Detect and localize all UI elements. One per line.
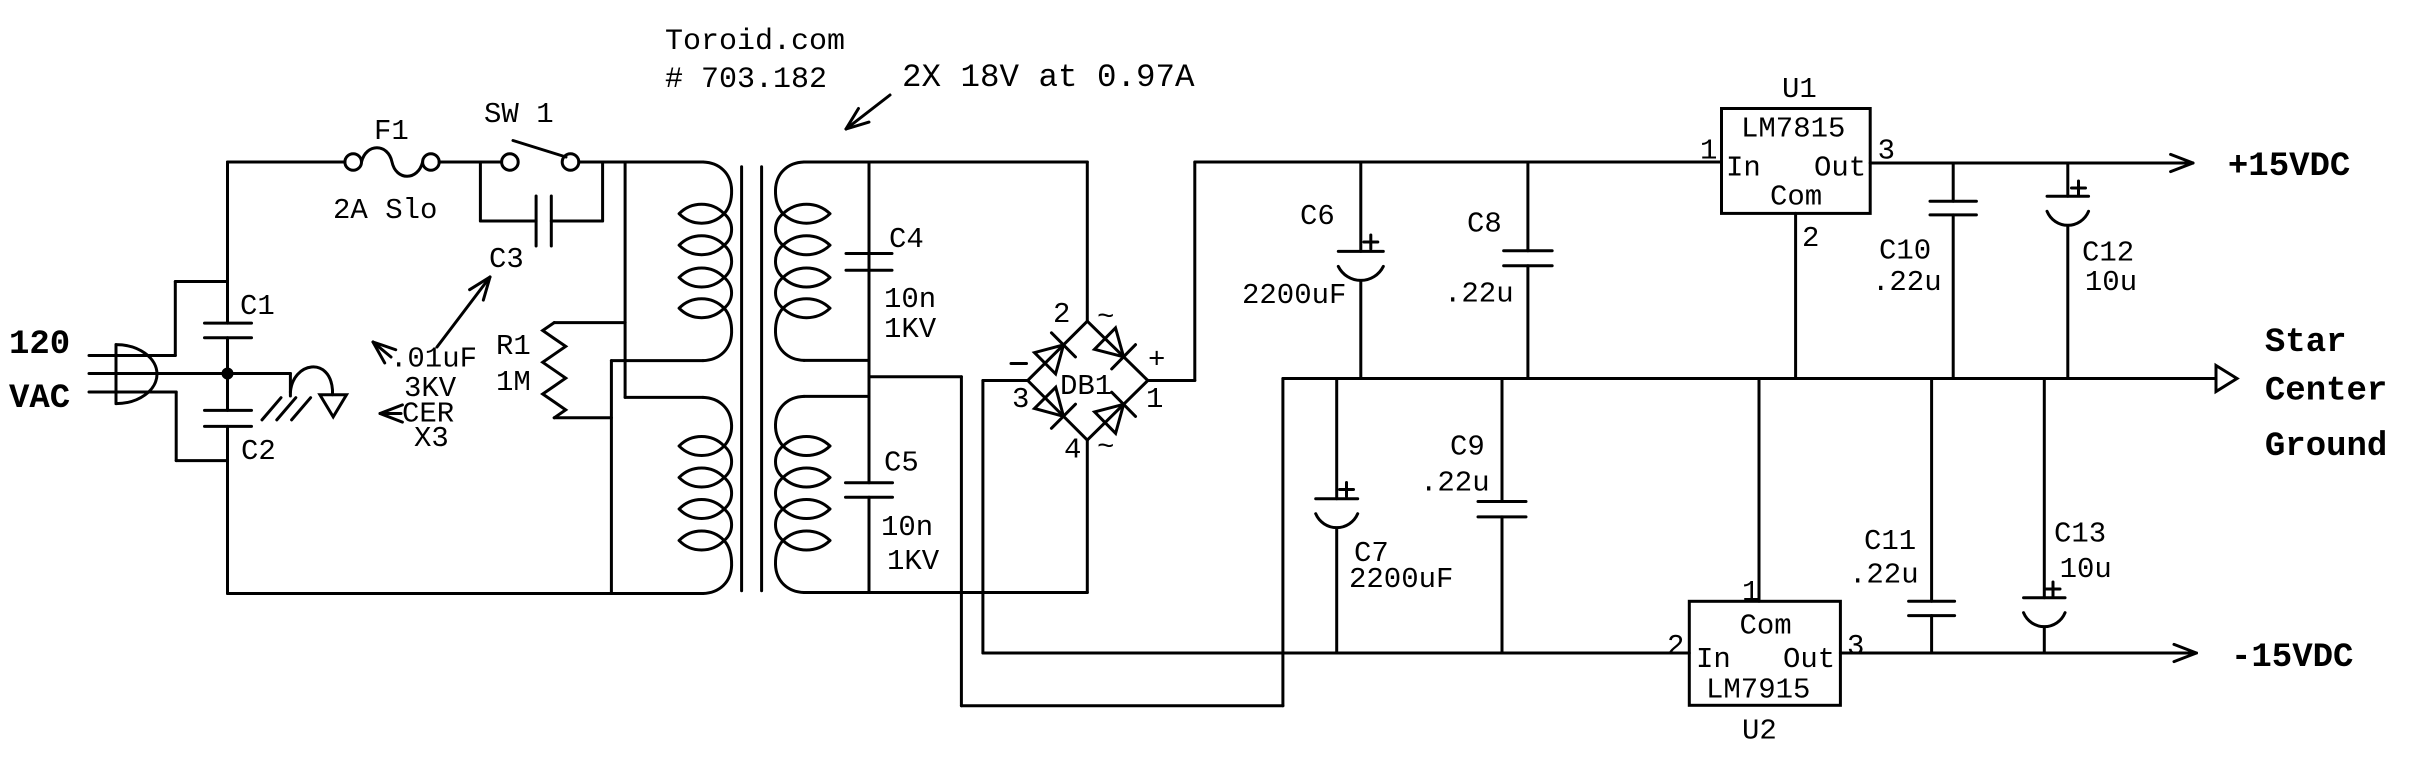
svg-text:.22u: .22u: [1420, 466, 1490, 499]
svg-text:C3: C3: [489, 243, 524, 276]
svg-text:U1: U1: [1782, 73, 1817, 106]
svg-text:F1: F1: [374, 115, 409, 148]
svg-text:+15VDC: +15VDC: [2228, 148, 2350, 186]
svg-text:10u: 10u: [2085, 266, 2137, 299]
svg-text:.22u: .22u: [1444, 278, 1514, 311]
svg-text:10u: 10u: [2060, 553, 2112, 586]
svg-text:10n: 10n: [884, 283, 936, 316]
svg-text:.01uF: .01uF: [390, 343, 477, 376]
svg-text:C6: C6: [1300, 200, 1335, 233]
svg-text:2X 18V at 0.97A: 2X 18V at 0.97A: [902, 59, 1195, 96]
svg-text:SW 1: SW 1: [484, 98, 554, 131]
svg-text:~: ~: [1097, 431, 1114, 464]
svg-text:4: 4: [1064, 434, 1081, 467]
svg-text:C12: C12: [2082, 237, 2134, 270]
svg-text:.22u: .22u: [1872, 266, 1942, 299]
svg-text:2A Slo: 2A Slo: [333, 194, 437, 227]
svg-text:-15VDC: -15VDC: [2231, 639, 2353, 677]
svg-text:1KV: 1KV: [887, 545, 940, 578]
svg-text:Center: Center: [2265, 373, 2387, 411]
svg-text:2: 2: [1667, 630, 1684, 663]
svg-text:C5: C5: [884, 447, 919, 480]
svg-text:C2: C2: [241, 435, 276, 468]
svg-text:3: 3: [1012, 383, 1029, 416]
svg-text:1KV: 1KV: [884, 313, 937, 346]
svg-text:2200uF: 2200uF: [1242, 279, 1346, 312]
svg-text:R1: R1: [496, 330, 531, 363]
svg-text:Toroid.com: Toroid.com: [665, 25, 845, 59]
svg-text:# 703.182: # 703.182: [665, 63, 827, 97]
svg-text:Com: Com: [1770, 181, 1822, 214]
svg-text:U2: U2: [1742, 715, 1777, 748]
svg-text:1: 1: [1146, 383, 1163, 416]
svg-text:LM7815: LM7815: [1741, 112, 1845, 145]
svg-text:2200uF: 2200uF: [1349, 563, 1453, 596]
svg-text:120: 120: [9, 326, 70, 364]
svg-text:1: 1: [1700, 134, 1717, 167]
svg-text:Out: Out: [1814, 151, 1866, 184]
svg-text:1M: 1M: [496, 366, 531, 399]
svg-text:10n: 10n: [881, 511, 933, 544]
svg-text:VAC: VAC: [9, 380, 70, 418]
svg-text:3: 3: [1847, 630, 1864, 663]
svg-text:.22u: .22u: [1849, 558, 1919, 591]
svg-text:In: In: [1726, 151, 1761, 184]
svg-text:LM7915: LM7915: [1706, 674, 1810, 707]
svg-text:C13: C13: [2054, 517, 2106, 550]
svg-text:2: 2: [1802, 222, 1819, 255]
svg-text:C11: C11: [1864, 525, 1916, 558]
svg-text:Star: Star: [2265, 324, 2347, 362]
svg-text:~: ~: [1097, 301, 1114, 334]
svg-text:X3: X3: [414, 422, 449, 455]
svg-text:2: 2: [1053, 298, 1070, 331]
svg-text:Out: Out: [1783, 643, 1835, 676]
svg-text:+: +: [1148, 344, 1165, 377]
svg-text:1: 1: [1742, 576, 1759, 609]
svg-text:DB1: DB1: [1060, 370, 1112, 403]
svg-text:C8: C8: [1467, 208, 1502, 241]
svg-text:C9: C9: [1450, 431, 1485, 464]
svg-text:Ground: Ground: [2265, 428, 2387, 466]
svg-text:C4: C4: [889, 223, 924, 256]
svg-text:C10: C10: [1879, 234, 1931, 267]
svg-text:In: In: [1696, 643, 1731, 676]
svg-text:C1: C1: [240, 290, 275, 323]
svg-text:Com: Com: [1740, 610, 1792, 643]
